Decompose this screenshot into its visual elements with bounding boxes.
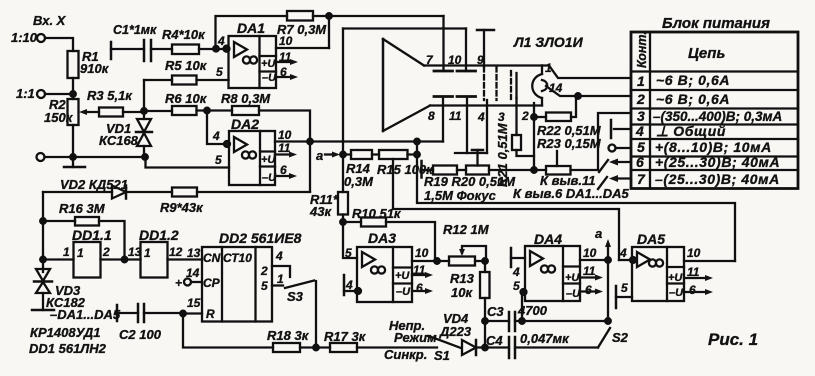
node xyxy=(519,318,525,324)
svg-text:1: 1 xyxy=(77,246,84,260)
arrow pin11 DA4 xyxy=(580,276,598,278)
wire DA3 pin5 xyxy=(343,222,357,258)
arrow pin6 DA2 xyxy=(275,175,292,177)
terminal CP pin14 xyxy=(184,279,191,286)
node xyxy=(204,108,210,114)
arrow pin11 DA5 xyxy=(684,277,708,279)
node pin15 xyxy=(180,311,186,317)
svg-text:R12 1М: R12 1М xyxy=(443,222,490,237)
resistor R18 xyxy=(273,343,300,352)
cathode lines xyxy=(510,71,512,99)
resistor R13 xyxy=(484,261,486,272)
svg-text:6: 6 xyxy=(280,163,287,177)
arrow pin11 DA1 xyxy=(276,61,293,63)
wire xyxy=(72,125,74,157)
svg-text:+: + xyxy=(175,276,182,290)
switch S2 lever xyxy=(598,328,610,348)
ground terminal circle xyxy=(37,153,45,161)
wire node a vertical to plate 7 feed xyxy=(342,29,344,193)
input terminal 1:10 xyxy=(37,34,45,42)
svg-text:6: 6 xyxy=(585,283,592,297)
svg-text:R9*43к: R9*43к xyxy=(160,200,204,215)
CRT neck bottom edge xyxy=(430,104,542,106)
resistor R20 xyxy=(466,166,489,175)
wire R9 to DA2 output riser xyxy=(197,191,310,193)
deflection plate 8 xyxy=(434,95,453,98)
wire DA1 output pin10 xyxy=(276,47,329,49)
svg-text:–U: –U xyxy=(566,288,581,300)
svg-text:10: 10 xyxy=(415,246,429,260)
wire xyxy=(489,169,546,171)
pin 4 stem xyxy=(486,100,488,153)
inverter DD1.1 xyxy=(43,258,74,260)
svg-text:+U: +U xyxy=(261,154,276,166)
svg-text:11: 11 xyxy=(449,109,462,123)
wire DD2 out pin1 xyxy=(272,284,283,286)
svg-text:4: 4 xyxy=(345,278,353,292)
svg-text:DA2: DA2 xyxy=(231,116,259,132)
svg-text:DD1 561ЛН2: DD1 561ЛН2 xyxy=(29,341,107,356)
op-amp DA2 xyxy=(229,131,275,185)
node 4 of DA1 xyxy=(213,46,219,52)
node xyxy=(340,219,346,225)
svg-text:R13: R13 xyxy=(450,271,475,286)
svg-text:2: 2 xyxy=(260,264,268,278)
resistor R15 xyxy=(379,150,408,159)
wire xyxy=(457,169,466,171)
wire DD2 out pin4 xyxy=(272,266,290,277)
node xyxy=(40,218,46,224)
svg-text:10: 10 xyxy=(448,53,462,67)
svg-text:13: 13 xyxy=(128,245,142,259)
heater arc xyxy=(532,74,542,98)
wire R2 wiper xyxy=(84,111,99,113)
deflection plate 11 xyxy=(457,95,476,98)
node xyxy=(482,345,488,351)
svg-text:10: 10 xyxy=(583,246,597,260)
resistor R14 xyxy=(351,150,372,159)
wire DA4 output xyxy=(580,259,608,261)
resistor R4 xyxy=(172,45,199,55)
diode VD2 xyxy=(43,191,112,193)
svg-text:1: 1 xyxy=(637,73,645,89)
svg-text:R21 0,51М: R21 0,51М xyxy=(495,122,510,187)
svg-text:1: 1 xyxy=(277,272,284,286)
node xyxy=(141,108,147,114)
wire xyxy=(197,109,233,111)
pin 3 stem xyxy=(515,98,517,135)
wire down to R18 row xyxy=(183,314,273,348)
svg-text:CN: CN xyxy=(203,251,221,265)
svg-text:0,3М: 0,3М xyxy=(344,174,374,189)
svg-text:С2 100: С2 100 xyxy=(119,327,162,342)
resistor R21 xyxy=(512,135,521,150)
arrow pin11 DA2 xyxy=(275,153,292,155)
wire DA1 output riser xyxy=(328,16,330,48)
arrow pin6 DA4 xyxy=(580,290,598,292)
CRT L1 funnel screen edge xyxy=(382,39,385,131)
wire left vertical xyxy=(42,192,44,272)
svg-text:R16 3М: R16 3М xyxy=(59,201,106,216)
svg-text:Рис. 1: Рис. 1 xyxy=(708,330,758,349)
svg-text:DA4: DA4 xyxy=(534,231,562,247)
focus divider row: bar terminal xyxy=(420,161,423,178)
svg-text:11: 11 xyxy=(583,264,596,278)
svg-text:⊥ Общий: ⊥ Общий xyxy=(656,123,726,139)
svg-text:10: 10 xyxy=(278,128,292,142)
wire xyxy=(343,153,379,155)
wire xyxy=(197,79,229,81)
svg-text:С4: С4 xyxy=(486,333,503,348)
power table frame xyxy=(631,32,798,189)
wire top row node a to plate 10 xyxy=(343,27,466,29)
wire xyxy=(43,221,125,260)
wire xyxy=(123,111,144,113)
svg-text:1: 1 xyxy=(144,246,151,260)
svg-text:3: 3 xyxy=(498,110,505,124)
zener VD3 KC182 xyxy=(36,269,50,281)
svg-text:R6 10к: R6 10к xyxy=(165,91,208,106)
svg-text:S3: S3 xyxy=(287,289,304,304)
resistor R5 xyxy=(172,76,197,85)
arrow pin6 DA3 xyxy=(412,290,428,292)
svg-text:+U: +U xyxy=(261,58,276,70)
grid dashed electrodes xyxy=(483,67,485,100)
svg-text:R17 3к: R17 3к xyxy=(324,329,367,344)
CRT neck top edge xyxy=(424,64,542,66)
capacitor C1 terminal bar xyxy=(110,42,113,59)
svg-text:R18 3к: R18 3к xyxy=(267,328,310,343)
node a vertical at DA4 xyxy=(607,246,609,321)
svg-text:С1*1мк: С1*1мк xyxy=(113,23,157,37)
wire DA5 output xyxy=(684,260,735,262)
svg-text:–DA1...DA5: –DA1...DA5 xyxy=(50,307,121,322)
node xyxy=(70,154,76,160)
wire xyxy=(45,38,73,51)
svg-text:5: 5 xyxy=(345,246,352,260)
svg-text:+(8...10)В; 10мА: +(8...10)В; 10мА xyxy=(655,139,772,155)
svg-text:4: 4 xyxy=(275,249,283,263)
input terminal 1:1 xyxy=(37,90,45,98)
svg-text:СТ10: СТ10 xyxy=(223,251,252,265)
wire DA4 pin5 riser xyxy=(522,292,525,321)
DA5 pin5 common bar xyxy=(615,286,618,308)
node a arrow marker xyxy=(325,153,334,155)
svg-text:2: 2 xyxy=(521,109,529,123)
resistor R12 potentiometer xyxy=(449,257,475,266)
wire top row to CRT plate 7 xyxy=(313,15,444,17)
svg-text:10: 10 xyxy=(687,246,701,260)
wire R5 row xyxy=(144,79,172,81)
svg-text:+U: +U xyxy=(395,270,410,282)
wire xyxy=(342,215,344,223)
resistor R17 xyxy=(330,343,357,352)
arrow pin11 DA3 xyxy=(412,274,428,276)
svg-text:DD1.2: DD1.2 xyxy=(139,227,179,243)
op-amp DA1 xyxy=(229,36,277,88)
svg-text:–U: –U xyxy=(396,286,411,298)
wire R6 row xyxy=(144,110,172,112)
svg-text:1: 1 xyxy=(63,245,70,259)
wire xyxy=(199,48,228,50)
svg-text:Л1 ЗЛО1И: Л1 ЗЛО1И xyxy=(513,34,584,50)
capacitor C2 xyxy=(117,312,138,314)
table row4 common bar xyxy=(614,128,631,130)
capacitor C4 xyxy=(485,346,509,348)
svg-text:2: 2 xyxy=(636,91,645,107)
svg-text:1,5М Фокус: 1,5М Фокус xyxy=(424,188,497,203)
svg-text:13: 13 xyxy=(187,246,201,260)
svg-text:DA1: DA1 xyxy=(237,20,265,36)
svg-text:Блок питания: Блок питания xyxy=(662,15,770,32)
switch S1 lever xyxy=(434,338,461,348)
DA3 pin4 common bar xyxy=(343,275,346,295)
svg-text:6: 6 xyxy=(416,281,423,295)
svg-text:С3: С3 xyxy=(487,304,504,319)
svg-text:14: 14 xyxy=(186,266,200,280)
svg-text:–(25...30)В; 40мА: –(25...30)В; 40мА xyxy=(655,171,780,187)
wire pin15 R xyxy=(183,312,202,314)
wire xyxy=(343,222,435,261)
svg-text:–U: –U xyxy=(669,287,684,299)
svg-text:а: а xyxy=(595,226,602,241)
svg-text:1:10: 1:10 xyxy=(11,30,38,45)
svg-text:10к: 10к xyxy=(451,285,473,300)
focus trimmer bar R20 xyxy=(472,149,483,152)
op-amp DA4 xyxy=(525,246,580,301)
svg-text:1:1: 1:1 xyxy=(16,86,35,101)
svg-text:DA3: DA3 xyxy=(368,230,396,246)
node xyxy=(482,258,488,264)
svg-text:150к: 150к xyxy=(44,110,74,125)
node xyxy=(70,91,76,97)
diode VD4 xyxy=(462,340,476,355)
svg-text:5: 5 xyxy=(637,139,645,155)
node DA2 output xyxy=(307,139,313,145)
svg-text:0,047мк: 0,047мк xyxy=(520,331,570,346)
svg-text:5: 5 xyxy=(621,281,628,295)
svg-text:R8 0,3М: R8 0,3М xyxy=(221,91,271,106)
svg-text:6: 6 xyxy=(689,283,696,297)
wire xyxy=(484,298,486,348)
resistor R6 xyxy=(172,106,197,115)
wire xyxy=(45,93,73,95)
CRT funnel diagonals xyxy=(383,39,430,131)
svg-text:4: 4 xyxy=(635,123,644,139)
resistor R19 xyxy=(433,166,457,175)
node xyxy=(40,257,46,263)
DA4 pin4 common bar xyxy=(510,248,513,267)
resistor R3 xyxy=(99,108,123,117)
wire xyxy=(101,258,141,260)
svg-text:Конт.: Конт. xyxy=(635,31,649,68)
wire DA2 pin5 to ground node xyxy=(146,157,230,168)
resistor R8 xyxy=(232,106,259,115)
counter DD2 xyxy=(202,247,272,322)
svg-text:Синкр.: Синкр. xyxy=(384,347,427,362)
node xyxy=(414,152,420,158)
wire xyxy=(408,142,418,155)
svg-text:4700: 4700 xyxy=(517,303,548,318)
svg-text:DD2 561ИЕ8: DD2 561ИЕ8 xyxy=(219,230,302,246)
svg-text:R10 51к: R10 51к xyxy=(352,206,402,221)
pin 9 stem and bar xyxy=(483,30,485,67)
wire xyxy=(72,78,74,99)
wire R15 wiper to DA5 pin4 line xyxy=(393,159,619,260)
svg-text:К выв.6 DA1...DA5: К выв.6 DA1...DA5 xyxy=(513,186,629,201)
node a xyxy=(340,152,346,158)
wire R8 to DA2 output riser xyxy=(259,111,310,192)
svg-text:+U: +U xyxy=(668,272,683,284)
svg-text:3: 3 xyxy=(637,108,645,124)
node xyxy=(122,257,128,263)
wire to S1 xyxy=(357,346,437,348)
deflection plate 7 xyxy=(442,16,444,71)
deflection plate 10 xyxy=(465,29,467,72)
svg-text:–U: –U xyxy=(262,72,277,84)
svg-text:11: 11 xyxy=(687,265,700,279)
svg-text:R: R xyxy=(206,307,215,321)
capacitor C2 terminal bar xyxy=(116,305,119,321)
svg-text:4: 4 xyxy=(619,246,627,260)
svg-text:СР: СР xyxy=(203,276,221,290)
resistor R22 xyxy=(534,116,546,118)
node xyxy=(313,345,319,351)
resistor R1 xyxy=(68,51,79,78)
node xyxy=(142,154,148,160)
svg-text:S2: S2 xyxy=(612,330,629,345)
svg-text:DA5: DA5 xyxy=(637,231,665,247)
svg-text:6: 6 xyxy=(280,65,287,79)
svg-text:12: 12 xyxy=(169,245,183,259)
switch S3 lever xyxy=(285,281,314,289)
wire R23 to table row3 riser xyxy=(571,113,632,170)
resistor R7 xyxy=(287,11,313,21)
pin 1 wire to table row1 xyxy=(542,66,631,79)
svg-text:R4*10к: R4*10к xyxy=(162,27,206,42)
svg-text:5: 5 xyxy=(513,279,520,293)
resistor R9 xyxy=(172,188,197,197)
wire feedback riser xyxy=(216,16,288,49)
inverter DD1.2 xyxy=(141,242,168,278)
resistor R16 xyxy=(75,217,99,226)
R23 top stub xyxy=(556,151,558,166)
svg-text:4: 4 xyxy=(477,110,485,124)
svg-text:910к: 910к xyxy=(80,61,110,76)
node xyxy=(482,318,488,324)
zener VD1 KC168 xyxy=(143,111,145,119)
capacitor C1 xyxy=(111,48,144,50)
svg-text:1: 1 xyxy=(545,61,552,75)
table row6 arrow xyxy=(616,161,631,163)
wire xyxy=(475,260,485,262)
svg-text:15: 15 xyxy=(187,296,201,310)
wire DA5 pin4 loop xyxy=(619,259,632,261)
svg-text:R23 0,15М: R23 0,15М xyxy=(537,136,602,151)
svg-text:КР1408УД1: КР1408УД1 xyxy=(30,325,101,340)
svg-text:R5 10к: R5 10к xyxy=(165,58,208,73)
pin 14 wire to table row2 xyxy=(546,86,631,96)
wire xyxy=(168,258,203,260)
wire xyxy=(300,346,330,348)
svg-text:КС168: КС168 xyxy=(99,133,139,148)
svg-text:11: 11 xyxy=(413,263,426,277)
svg-text:5: 5 xyxy=(215,153,222,167)
table row5 terminal xyxy=(609,145,616,152)
resistor R23 xyxy=(546,166,571,175)
resistor R2 potentiometer xyxy=(68,99,79,125)
ground bar xyxy=(72,157,74,167)
wire ground row xyxy=(45,156,146,158)
svg-text:+U: +U xyxy=(565,272,580,284)
wire DA3 output xyxy=(412,260,449,262)
capacitor C3 xyxy=(485,320,509,322)
svg-text:14: 14 xyxy=(549,81,563,95)
resistor R10 xyxy=(361,218,386,227)
svg-text:11: 11 xyxy=(279,50,292,64)
svg-text:11: 11 xyxy=(278,141,291,155)
svg-text:5: 5 xyxy=(216,65,223,79)
wire DA2 pin4 xyxy=(207,111,229,145)
wire R5 branch down xyxy=(143,80,145,111)
node xyxy=(414,139,420,145)
svg-text:Цепь: Цепь xyxy=(688,45,725,62)
table row7 arrow xyxy=(616,177,631,179)
svg-text:~6 В; 0,6А: ~6 В; 0,6А xyxy=(656,72,730,88)
svg-text:Д223: Д223 xyxy=(439,324,472,339)
resistor R11 xyxy=(338,192,348,215)
svg-text:Вх. Х: Вх. Х xyxy=(33,13,67,28)
svg-text:43к: 43к xyxy=(309,204,332,219)
svg-text:–(350...400)В; 0,3мА: –(350...400)В; 0,3мА xyxy=(653,109,782,124)
op-amp DA5 xyxy=(632,247,684,301)
svg-text:DD1.1: DD1.1 xyxy=(72,227,112,243)
svg-text:6: 6 xyxy=(636,154,644,170)
node xyxy=(326,13,332,19)
pin 14 bump xyxy=(542,80,547,91)
wire R15 node to DA5 output line xyxy=(417,157,735,262)
svg-text:9: 9 xyxy=(477,53,484,67)
svg-text:2: 2 xyxy=(102,245,110,259)
svg-text:+(25...30)В; 40мА: +(25...30)В; 40мА xyxy=(655,154,780,170)
svg-text:4: 4 xyxy=(217,34,225,48)
CRT neck right edge xyxy=(541,66,543,106)
arrow pin6 DA5 xyxy=(684,291,708,293)
svg-text:~6 В; 0,6А: ~6 В; 0,6А xyxy=(656,91,730,107)
svg-text:а: а xyxy=(316,148,323,163)
svg-text:8: 8 xyxy=(428,109,435,123)
svg-text:4: 4 xyxy=(512,265,520,279)
wire DA2 output row to plate 8 xyxy=(275,140,443,142)
svg-text:5: 5 xyxy=(261,279,268,293)
svg-text:–U: –U xyxy=(262,172,277,184)
focus electrode row xyxy=(455,152,487,154)
arrow pin6 DA1 xyxy=(276,76,293,78)
svg-text:Режим: Режим xyxy=(394,330,437,345)
svg-text:10: 10 xyxy=(279,34,293,48)
pin 2 stem xyxy=(533,103,535,170)
op-amp DA3 xyxy=(357,247,412,302)
svg-text:4: 4 xyxy=(212,129,220,143)
svg-text:VD2 КД521: VD2 КД521 xyxy=(60,177,128,192)
svg-text:S1: S1 xyxy=(434,348,450,363)
svg-text:7: 7 xyxy=(637,171,646,187)
svg-text:R3 5,1к: R3 5,1к xyxy=(87,88,133,103)
